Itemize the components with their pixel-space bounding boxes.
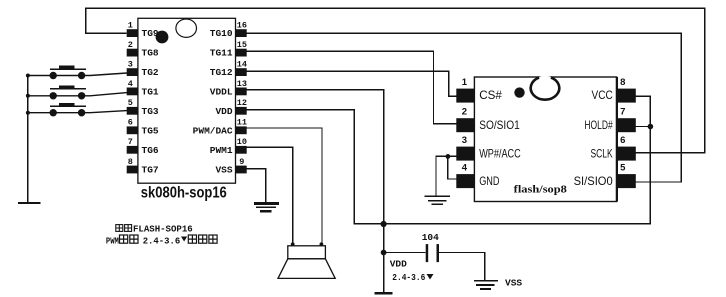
- svg-text:HOLD#: HOLD#: [584, 118, 613, 132]
- svg-text:3: 3: [128, 60, 133, 70]
- svg-text:SO/SIO1: SO/SIO1: [479, 118, 520, 132]
- svg-text:6: 6: [128, 118, 133, 128]
- svg-text:TG8: TG8: [142, 48, 159, 59]
- svg-text:2: 2: [462, 107, 467, 118]
- svg-text:12: 12: [237, 98, 247, 108]
- svg-text:GND: GND: [479, 174, 500, 188]
- svg-text:TG2: TG2: [142, 67, 159, 78]
- svg-text:TG5: TG5: [142, 125, 159, 136]
- svg-text:3: 3: [462, 135, 467, 146]
- svg-text:16: 16: [237, 21, 247, 31]
- svg-text:TG3: TG3: [142, 106, 159, 117]
- svg-text:15: 15: [237, 40, 247, 50]
- svg-text:TG9: TG9: [142, 28, 159, 39]
- svg-text:2.4-3.6: 2.4-3.6: [143, 236, 181, 246]
- svg-text:13: 13: [237, 79, 247, 89]
- svg-text:5: 5: [128, 98, 133, 108]
- svg-text:VDD: VDD: [390, 258, 407, 269]
- svg-text:7: 7: [620, 107, 625, 118]
- svg-text:WP#/ACC: WP#/ACC: [479, 146, 521, 160]
- svg-text:VDD: VDD: [215, 106, 232, 117]
- svg-text:5: 5: [620, 162, 626, 173]
- svg-text:10: 10: [237, 137, 247, 147]
- svg-text:104: 104: [422, 232, 439, 243]
- svg-text:1: 1: [128, 21, 133, 31]
- svg-text:VDDL: VDDL: [210, 87, 233, 98]
- svg-text:8: 8: [620, 77, 625, 88]
- svg-text:TG1: TG1: [142, 87, 159, 98]
- svg-text:14: 14: [237, 60, 247, 70]
- svg-text:8: 8: [128, 157, 133, 167]
- svg-text:flash/sop8: flash/sop8: [514, 183, 568, 195]
- svg-text:TG11: TG11: [210, 48, 233, 59]
- svg-text:VCC: VCC: [592, 88, 613, 102]
- svg-text:SI/SIO0: SI/SIO0: [574, 174, 613, 188]
- svg-text:4: 4: [462, 162, 468, 173]
- svg-text:PWM1: PWM1: [210, 145, 233, 156]
- svg-text:1: 1: [462, 77, 468, 88]
- svg-text:6: 6: [620, 135, 625, 146]
- svg-text:2.4-3.6: 2.4-3.6: [392, 272, 425, 283]
- svg-text:4: 4: [128, 79, 133, 89]
- svg-text:TG7: TG7: [142, 165, 159, 176]
- svg-text:VSS: VSS: [505, 278, 522, 289]
- svg-text:CS#: CS#: [479, 88, 502, 102]
- svg-text:VSS: VSS: [215, 165, 232, 176]
- svg-text:PWM: PWM: [106, 236, 119, 246]
- svg-text:TG6: TG6: [142, 145, 159, 156]
- svg-text:9: 9: [239, 157, 244, 167]
- svg-text:7: 7: [128, 137, 133, 147]
- svg-text:TG10: TG10: [210, 28, 233, 39]
- svg-text:PWM/DAC: PWM/DAC: [193, 125, 233, 136]
- svg-text:2: 2: [128, 40, 133, 50]
- svg-text:TG12: TG12: [210, 67, 233, 78]
- svg-text:sk080h-sop16: sk080h-sop16: [141, 184, 227, 201]
- svg-text:FLASH-SOP16: FLASH-SOP16: [133, 224, 193, 234]
- svg-text:11: 11: [237, 118, 247, 128]
- svg-text:SCLK: SCLK: [591, 146, 613, 160]
